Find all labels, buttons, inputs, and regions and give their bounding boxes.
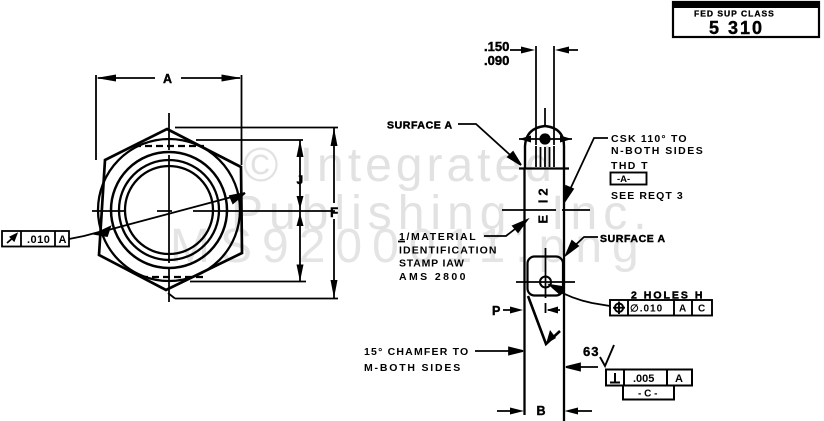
leader surface A lower — [566, 237, 598, 255]
vertical centerline hex view — [168, 113, 170, 302]
svg-text:1/MATERIAL: 1/MATERIAL — [399, 231, 477, 243]
leader material identification — [484, 220, 527, 236]
svg-text:E I2: E I2 — [536, 184, 551, 223]
label 15 deg chamfer — [364, 346, 469, 374]
dim .150 .090 — [484, 39, 509, 68]
lower hole H — [516, 248, 575, 313]
svg-text:.010: .010 — [27, 234, 50, 246]
svg-text:15° CHAMFER TO: 15° CHAMFER TO — [364, 346, 469, 358]
datum -A- box — [611, 173, 647, 185]
chamfer circle — [98, 139, 240, 281]
leader from lower hole to frame — [550, 285, 610, 306]
svg-text:.090: .090 — [484, 53, 509, 68]
label material identification block — [399, 231, 498, 283]
side view horizontal centerline — [502, 209, 590, 211]
datum -C- box — [623, 386, 674, 400]
surface finish checkmark on face — [528, 296, 560, 344]
dimension F — [168, 128, 338, 299]
svg-text:C: C — [698, 304, 705, 315]
svg-text:A: A — [59, 234, 67, 246]
svg-text:- C -: - C - — [638, 389, 657, 400]
svg-text:J: J — [297, 173, 304, 187]
label CSK block — [611, 133, 704, 202]
svg-text:AMS 2800: AMS 2800 — [399, 271, 468, 283]
leader chamfer — [475, 348, 523, 355]
svg-text:F: F — [330, 205, 338, 220]
svg-text:A: A — [163, 72, 172, 86]
svg-text:STAMP IAW: STAMP IAW — [399, 258, 465, 270]
svg-text:THD T: THD T — [611, 160, 649, 172]
svg-text:.005: .005 — [633, 373, 654, 385]
chamfer face circle — [111, 152, 227, 268]
svg-text:A: A — [679, 304, 686, 315]
svg-text:5 310: 5 310 — [709, 18, 764, 38]
bore circle outer — [119, 160, 219, 260]
svg-text:FED SUP CLASS: FED SUP CLASS — [694, 9, 775, 19]
feature control frame runout .010 A — [2, 231, 69, 247]
svg-text:.150: .150 — [484, 39, 509, 54]
leader 63 — [566, 364, 598, 371]
svg-text:© Integrated: © Integrated — [243, 139, 556, 192]
svg-text:CSK 110° TO: CSK 110° TO — [611, 133, 688, 145]
svg-text:A: A — [675, 373, 683, 385]
svg-text:∅.010: ∅.010 — [630, 304, 663, 315]
svg-text:M-BOTH SIDES: M-BOTH SIDES — [364, 362, 462, 374]
position feature control frame — [610, 300, 712, 316]
perpendicularity frame — [606, 370, 692, 386]
thread hatch in dome — [536, 146, 554, 167]
upper hole H — [519, 133, 572, 144]
side view body edges — [525, 168, 565, 421]
svg-text:B: B — [537, 404, 546, 418]
horizontal centerline hex view — [92, 210, 335, 212]
runout arrow symbol — [7, 234, 17, 243]
shoulder line — [519, 167, 569, 169]
svg-text:P: P — [492, 304, 500, 318]
dimension A — [96, 75, 242, 165]
lower facet rounded rectangle — [528, 257, 564, 296]
bore circle inner — [125, 166, 213, 254]
svg-text:N-BOTH SIDES: N-BOTH SIDES — [611, 145, 704, 157]
underline under 1 — [398, 241, 405, 243]
leader surface A upper — [458, 124, 521, 165]
svg-text:IDENTIFICATION: IDENTIFICATION — [399, 245, 498, 257]
hidden chamfer dashed top — [134, 145, 204, 147]
hidden chamfer dashed bottom — [141, 276, 206, 278]
FED SUP CLASS box — [673, 2, 819, 38]
svg-text:SEE REQT 3: SEE REQT 3 — [611, 190, 684, 202]
hexagon outline — [99, 129, 242, 290]
svg-text:-A-: -A- — [617, 174, 630, 185]
side view dome cap — [525, 126, 564, 168]
leader diagonal across nut — [69, 193, 245, 239]
dimension J — [190, 140, 306, 282]
svg-text:63: 63 — [583, 344, 599, 359]
svg-text:SURFACE A: SURFACE A — [600, 233, 666, 245]
leader CSK — [565, 138, 608, 201]
side view top extension lines — [536, 46, 554, 145]
svg-text:SURFACE A: SURFACE A — [387, 120, 453, 132]
